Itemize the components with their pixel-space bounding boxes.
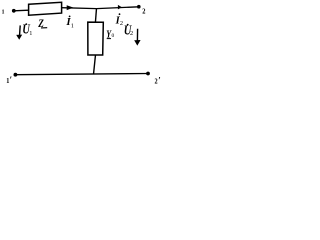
impedance box Z [29, 2, 62, 15]
svg-text:2: 2 [130, 30, 133, 37]
svg-text:Z: Z [37, 18, 44, 30]
bottom rail wire [15, 74, 148, 75]
admittance box Y0 [88, 22, 104, 55]
svg-text:2: 2 [142, 8, 146, 15]
wire terminal1 to box Z [14, 9, 29, 12]
arrowhead I1 [67, 5, 74, 10]
label I1 dot [69, 16, 71, 18]
wire junction to terminal 2 [97, 7, 139, 9]
svg-text:1: 1 [2, 9, 5, 15]
wire box Y0 down to bottom rail [94, 55, 96, 75]
arrowhead I2 [118, 5, 122, 9]
voltage U1 arrow [16, 25, 22, 39]
label U1 dot [25, 23, 27, 25]
terminal dot 2 [137, 5, 141, 9]
underline of Y0 [107, 38, 111, 40]
label U2 dot [127, 24, 129, 26]
terminal dot 1' [14, 73, 18, 77]
svg-text:′: ′ [158, 75, 161, 85]
terminal dot 1 [12, 9, 16, 13]
svg-text:0: 0 [112, 33, 115, 39]
svg-text:1: 1 [29, 30, 32, 37]
svg-text:1: 1 [71, 23, 74, 30]
label I2 dot [119, 13, 121, 15]
voltage U2 arrow [134, 29, 140, 46]
wire junction down to box Y0 [95, 8, 96, 22]
underline of Z [41, 27, 47, 29]
wire box Z to junction [62, 7, 97, 10]
terminal dot 2' [146, 72, 150, 76]
svg-text:′: ′ [10, 75, 13, 85]
background [0, 0, 165, 91]
svg-text:2: 2 [120, 20, 123, 27]
